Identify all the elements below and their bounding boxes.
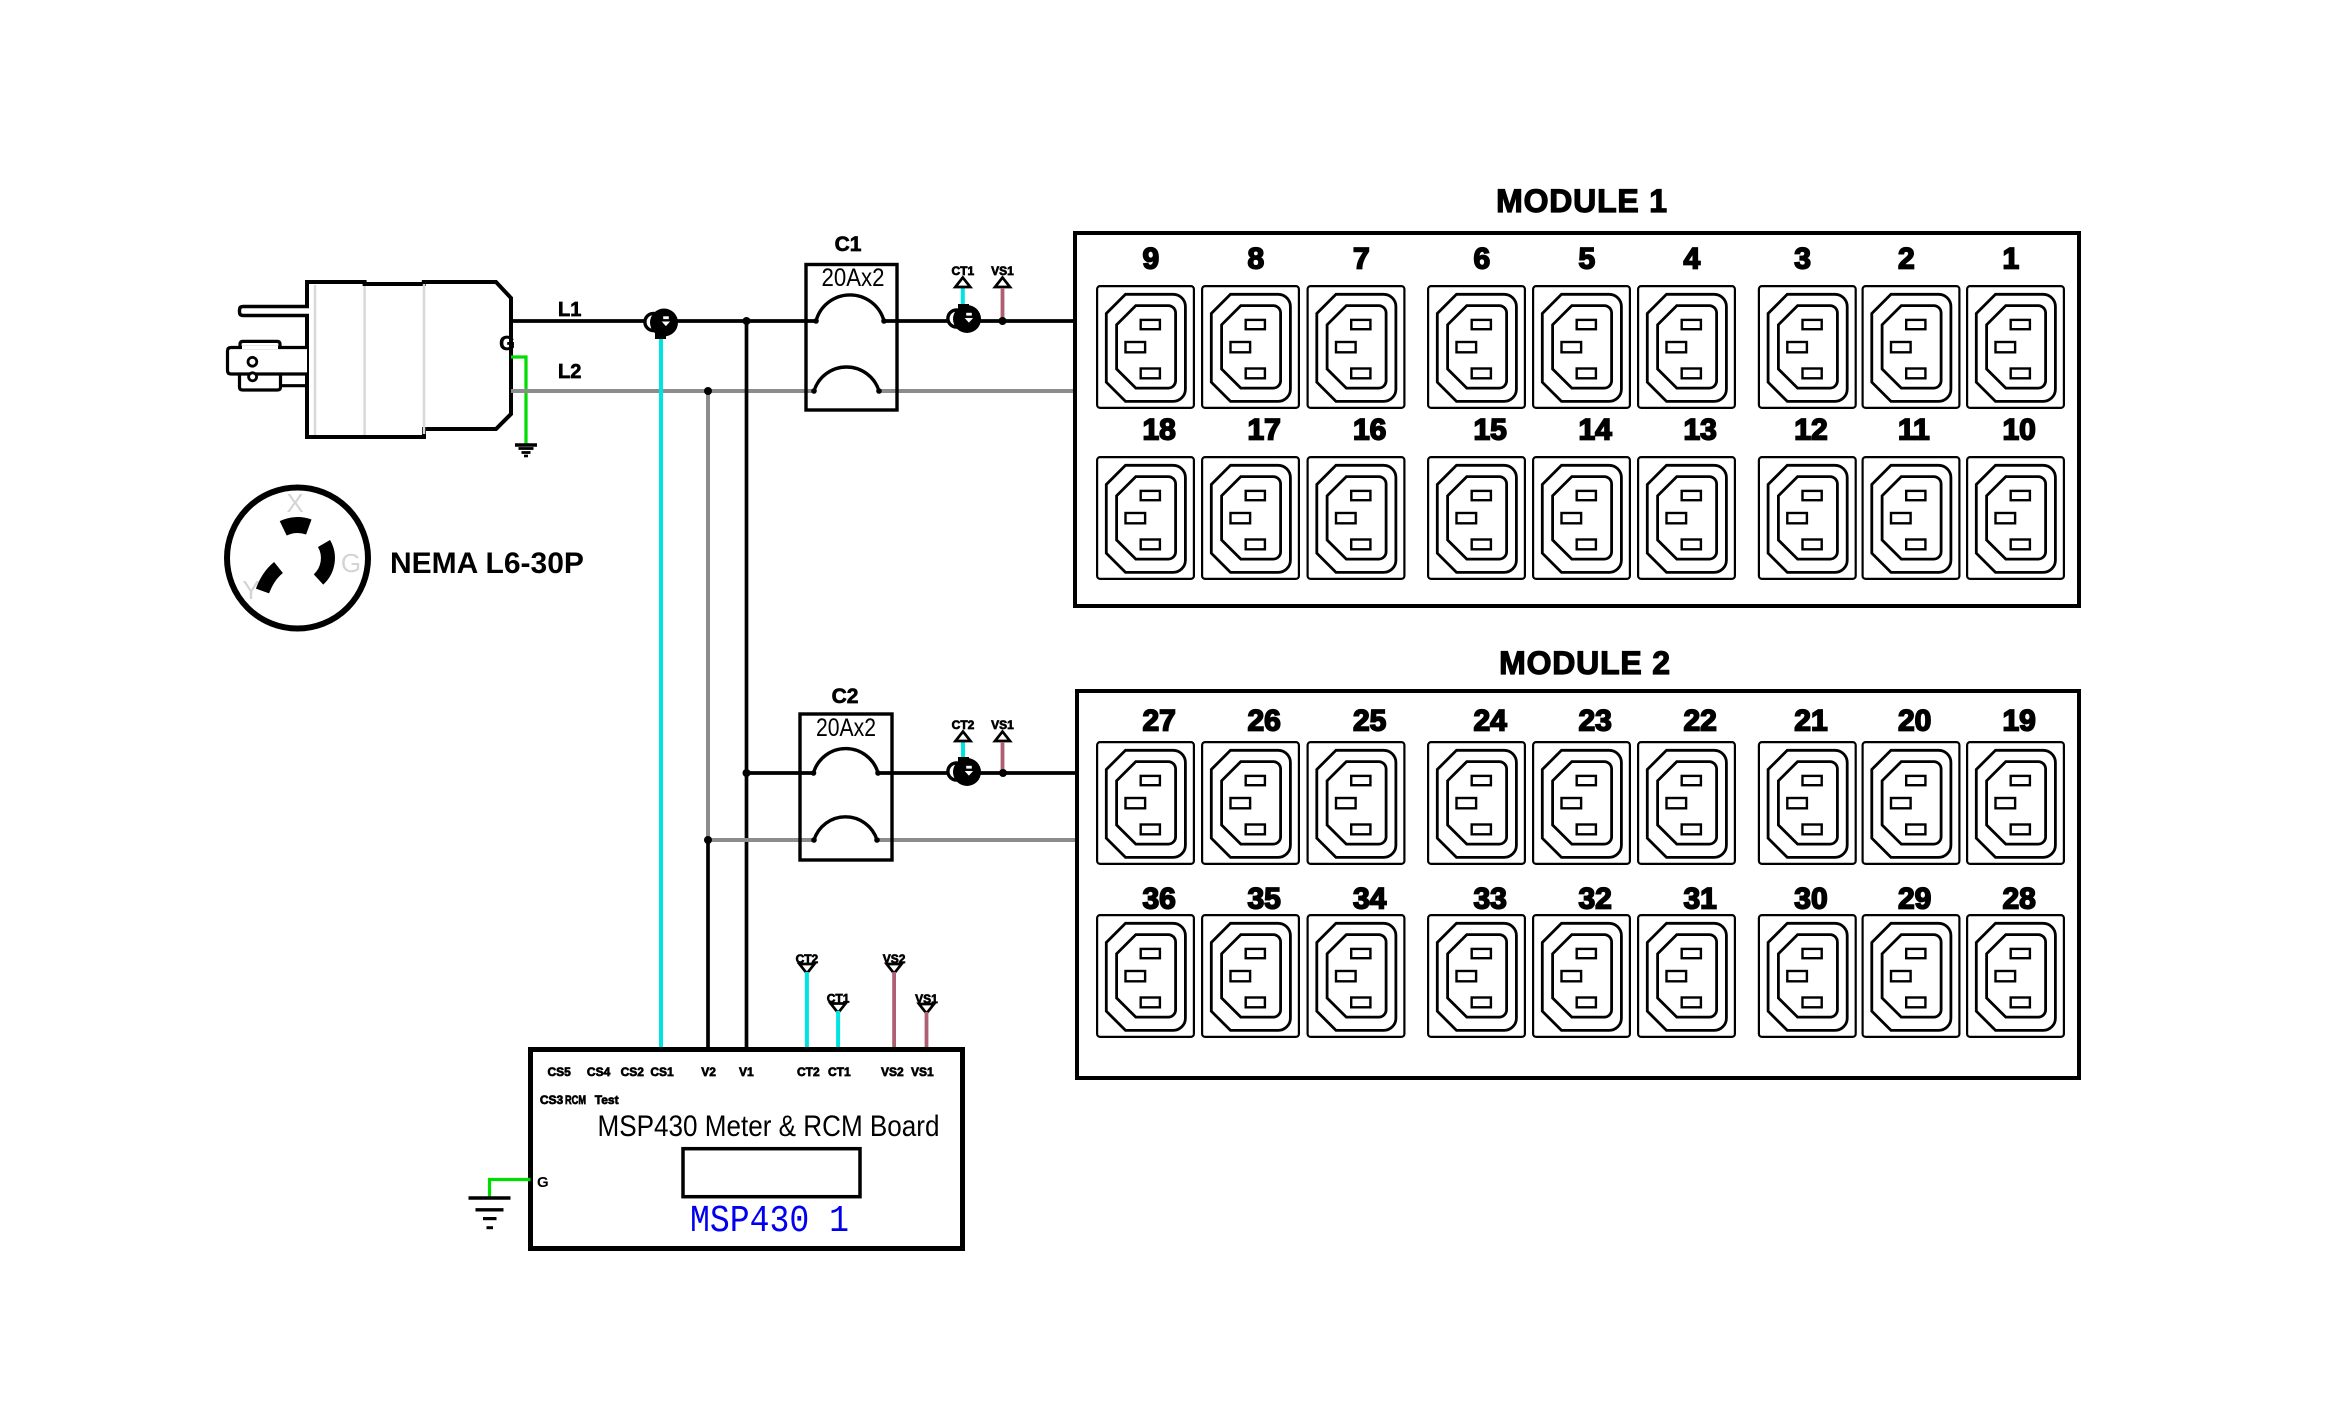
outlet 25 (module 2 top row) (1308, 705, 1405, 864)
current transformer CT1 on L1 (958, 304, 969, 310)
outlet 31 (module 2 bottom row) (1638, 883, 1735, 1037)
svg-text:CS3: CS3 (540, 1093, 564, 1107)
svg-text:CS4: CS4 (587, 1065, 611, 1079)
svg-text:C2: C2 (832, 685, 859, 708)
outlet 28 (module 2 bottom row) (1967, 883, 2064, 1037)
svg-text:VS1: VS1 (911, 1065, 934, 1079)
breaker C2 (800, 714, 892, 860)
svg-text:G: G (341, 548, 361, 578)
svg-text:MSP430 Meter & RCM Board: MSP430 Meter & RCM Board (598, 1110, 940, 1143)
wire VS1 stem (maroon) (1001, 288, 1005, 318)
board pin labels row 1 (548, 1065, 935, 1079)
svg-text:26: 26 (1248, 705, 1281, 738)
outlet 20 (module 2 top row) (1863, 705, 1960, 864)
wire V2 drop (L2 to board V2, gray then black) (706, 391, 710, 840)
svg-text:G: G (499, 333, 515, 355)
svg-text:16: 16 (1353, 414, 1386, 447)
wire VS2 board stem (maroon) (892, 972, 896, 1049)
outlet 21 (module 2 top row) (1759, 705, 1856, 864)
ground (board) (469, 1198, 511, 1228)
outlet 35 (module 2 bottom row) (1202, 883, 1299, 1037)
outlet 30 (module 2 bottom row) (1759, 883, 1856, 1037)
svg-text:20Ax2: 20Ax2 (816, 714, 876, 742)
wire VS1 stem 2 (maroon) (1001, 742, 1005, 770)
svg-text:14: 14 (1579, 414, 1613, 447)
svg-text:17: 17 (1248, 414, 1281, 447)
flag CT2 (952, 718, 975, 741)
outlet 18 (module 1 bottom row) (1097, 414, 1194, 579)
svg-text:V2: V2 (701, 1065, 716, 1079)
outlet 12 (module 1 bottom row) (1759, 414, 1856, 579)
outlet 9 (module 1 top row) (1097, 243, 1194, 408)
wire V1 drop (L1 to C2 feed and board V1) (745, 321, 749, 1049)
svg-text:2: 2 (1898, 243, 1915, 276)
svg-text:MSP430 1: MSP430 1 (690, 1200, 849, 1243)
svg-text:33: 33 (1474, 883, 1507, 916)
flag VS1 (module 2 voltage sense) (991, 718, 1014, 741)
svg-text:34: 34 (1353, 883, 1387, 916)
svg-text:5: 5 (1579, 243, 1596, 276)
wire CT2 board stem (cyan) (805, 972, 809, 1049)
wire CS1 (cyan from RCM sensor to board) (659, 330, 663, 1049)
outlet 33 (module 2 bottom row) (1428, 883, 1525, 1037)
svg-text:L1: L1 (558, 299, 581, 321)
outlet 19 (module 2 top row) (1967, 705, 2064, 864)
outlet 13 (module 1 bottom row) (1638, 414, 1735, 579)
svg-text:25: 25 (1353, 705, 1386, 738)
pin X (face) (283, 525, 309, 528)
outlet 24 (module 2 top row) (1428, 705, 1525, 864)
LCD display rectangle (683, 1149, 860, 1197)
flag CT1 (951, 264, 974, 287)
svg-text:11: 11 (1898, 414, 1930, 447)
wire VS1 board stem (maroon) (925, 1012, 929, 1049)
svg-text:MODULE 2: MODULE 2 (1499, 645, 1671, 681)
wire G (plug ground, green) (511, 357, 526, 444)
svg-text:29: 29 (1898, 883, 1931, 916)
outlet 29 (module 2 bottom row) (1863, 883, 1960, 1037)
outlet 36 (module 2 bottom row) (1097, 883, 1194, 1037)
svg-text:3: 3 (1794, 243, 1811, 276)
svg-text:NEMA L6-30P: NEMA L6-30P (390, 547, 584, 580)
pin G (face) (319, 544, 328, 580)
outlet 7 (module 1 top row) (1308, 243, 1405, 408)
current transformer CT2 on module 2 feed (958, 757, 969, 763)
flag VS1 (board input) (915, 992, 938, 1014)
svg-text:20: 20 (1898, 705, 1931, 738)
ground (plug) (515, 445, 537, 456)
node VS1 (999, 317, 1007, 325)
svg-text:28: 28 (2003, 883, 2036, 916)
outlet 2 (module 1 top row) (1863, 243, 1960, 408)
svg-text:18: 18 (1143, 414, 1176, 447)
module 2 enclosure (1077, 691, 2079, 1078)
svg-text:8: 8 (1248, 243, 1265, 276)
svg-text:9: 9 (1143, 243, 1160, 276)
svg-text:19: 19 (2003, 705, 2036, 738)
outlet 32 (module 2 bottom row) (1533, 883, 1630, 1037)
svg-text:35: 35 (1248, 883, 1281, 916)
svg-text:32: 32 (1579, 883, 1612, 916)
board pin labels row 2 (CS3 RCM Test) (540, 1093, 619, 1107)
outlet 23 (module 2 top row) (1533, 705, 1630, 864)
outlet 26 (module 2 top row) (1202, 705, 1299, 864)
wire CT1 stem (cyan) (961, 285, 965, 312)
flag VS2 (board input) (883, 952, 906, 974)
svg-text:1: 1 (2003, 243, 2020, 276)
flag VS1 (L1 voltage sense) (991, 264, 1014, 287)
svg-text:Y: Y (242, 575, 259, 605)
outlet 22 (module 2 top row) (1638, 705, 1735, 864)
svg-text:12: 12 (1794, 414, 1827, 447)
svg-text:CT1: CT1 (828, 1065, 851, 1079)
pin Y (face) (263, 568, 279, 592)
svg-text:V1: V1 (739, 1065, 754, 1079)
svg-text:13: 13 (1684, 414, 1717, 447)
plug P1 NEMA L6-30P male (307, 282, 511, 437)
svg-text:7: 7 (1353, 243, 1370, 276)
svg-text:4: 4 (1684, 243, 1701, 276)
plug ground prong (228, 341, 308, 390)
outlet 4 (module 1 top row) (1638, 243, 1735, 408)
svg-text:6: 6 (1474, 243, 1491, 276)
flag CT2 (board input) (796, 952, 819, 974)
svg-text:C1: C1 (835, 233, 862, 256)
outlet 3 (module 1 top row) (1759, 243, 1856, 408)
outlet 15 (module 1 bottom row) (1428, 414, 1525, 579)
plug blade prong (240, 307, 310, 316)
outlet 8 (module 1 top row) (1202, 243, 1299, 408)
svg-text:MODULE 1: MODULE 1 (1496, 183, 1668, 219)
node VS1 (module 2) (999, 769, 1007, 777)
outlet 6 (module 1 top row) (1428, 243, 1525, 408)
svg-text:22: 22 (1684, 705, 1717, 738)
NEMA L6-30P receptacle face symbol (227, 488, 368, 629)
module 1 enclosure (1075, 233, 2079, 606)
outlet 11 (module 1 bottom row) (1863, 414, 1960, 579)
node L2 junction (704, 387, 712, 395)
svg-text:24: 24 (1474, 705, 1508, 738)
svg-text:X: X (286, 488, 303, 518)
svg-text:L2: L2 (558, 361, 581, 383)
svg-text:CS5: CS5 (548, 1065, 572, 1079)
wire L1 (black) (511, 319, 1075, 323)
wire L2 feed to C2/module 2 (gray) (708, 838, 1077, 842)
outlet 34 (module 2 bottom row) (1308, 883, 1405, 1037)
svg-text:31: 31 (1684, 883, 1717, 916)
MSP430 Meter & RCM board U1 (531, 1050, 963, 1249)
flag CT1 (board input) (827, 992, 850, 1014)
breaker C1 (806, 265, 897, 411)
outlet 10 (module 1 bottom row) (1967, 414, 2064, 579)
svg-text:20Ax2: 20Ax2 (822, 264, 885, 292)
wire G (board ground, green) (490, 1180, 531, 1198)
wire CT1 board stem (cyan) (836, 1011, 840, 1049)
svg-text:30: 30 (1794, 883, 1827, 916)
outlet 14 (module 1 bottom row) (1533, 414, 1630, 579)
wire CT2 stem (cyan) (961, 739, 965, 764)
node L1 junction (743, 317, 751, 325)
svg-text:21: 21 (1794, 705, 1827, 738)
svg-text:36: 36 (1143, 883, 1176, 916)
wire L2 (gray) (511, 389, 1075, 393)
outlet 27 (module 2 top row) (1097, 705, 1194, 864)
outlet 1 (module 1 top row) (1967, 243, 2064, 408)
svg-text:10: 10 (2003, 414, 2036, 447)
wire L1 feed to C2/module 2 (black) (747, 771, 1078, 775)
outlet 17 (module 1 bottom row) (1202, 414, 1299, 579)
outlet 5 (module 1 top row) (1533, 243, 1630, 408)
svg-text:CS2: CS2 (621, 1065, 645, 1079)
svg-text:VS2: VS2 (881, 1065, 904, 1079)
node L2 feed junction (704, 836, 712, 844)
svg-text:CT2: CT2 (797, 1065, 820, 1079)
svg-text:CS1: CS1 (650, 1065, 674, 1079)
outlet 16 (module 1 bottom row) (1308, 414, 1405, 579)
svg-text:15: 15 (1474, 414, 1507, 447)
current sensor CS1 on L1 (655, 333, 666, 339)
svg-text:Test: Test (595, 1093, 619, 1107)
node C2 feed junction (743, 769, 751, 777)
svg-text:G: G (537, 1174, 549, 1191)
svg-text:RCM: RCM (565, 1093, 586, 1107)
svg-text:23: 23 (1579, 705, 1612, 738)
svg-text:27: 27 (1143, 705, 1176, 738)
